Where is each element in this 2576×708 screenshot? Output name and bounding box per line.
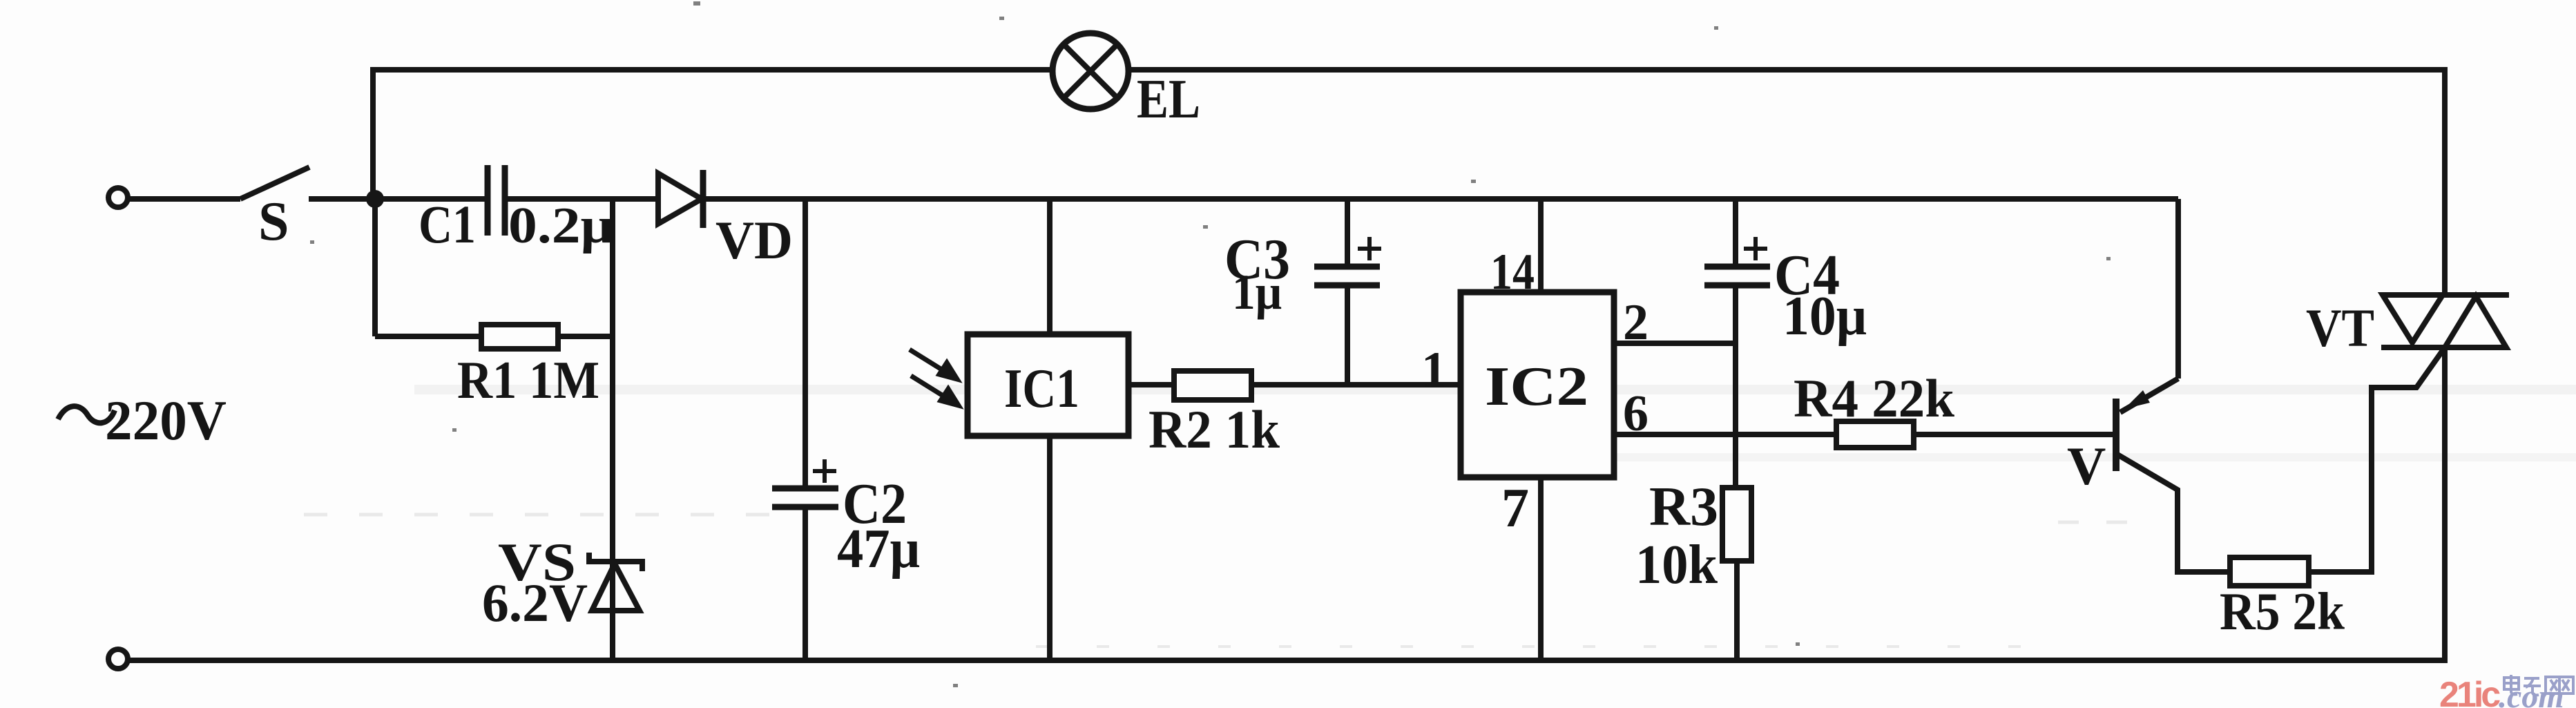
svg-text:2: 2 <box>1623 294 1649 351</box>
svg-text:10μ: 10μ <box>1782 286 1867 347</box>
svg-text:R1 1M: R1 1M <box>457 350 599 410</box>
svg-text:R4 22k: R4 22k <box>1794 368 1955 428</box>
svg-text:1: 1 <box>1421 342 1447 399</box>
svg-text:IC2: IC2 <box>1485 356 1588 417</box>
svg-text:R2 1k: R2 1k <box>1148 399 1280 459</box>
svg-text:C1: C1 <box>419 194 476 254</box>
svg-text:.com: .com <box>2499 678 2564 708</box>
svg-text:220V: 220V <box>105 389 227 452</box>
svg-text:47μ: 47μ <box>837 519 920 580</box>
svg-text:S: S <box>258 191 289 252</box>
svg-text:EL: EL <box>1137 69 1200 130</box>
svg-text:6.2V: 6.2V <box>482 573 588 633</box>
svg-text:10k: 10k <box>1635 535 1718 595</box>
svg-text:V: V <box>2067 436 2106 496</box>
svg-text:VD: VD <box>715 210 793 270</box>
svg-text:0.2μ: 0.2μ <box>508 198 613 254</box>
svg-text:VT: VT <box>2306 298 2374 358</box>
svg-text:14: 14 <box>1490 244 1535 300</box>
svg-text:1μ: 1μ <box>1232 265 1282 320</box>
svg-text:7: 7 <box>1501 478 1529 539</box>
svg-text:21ic: 21ic <box>2439 675 2500 708</box>
svg-text:R5 2k: R5 2k <box>2220 582 2345 641</box>
svg-text:IC1: IC1 <box>1004 358 1079 419</box>
svg-text:R3: R3 <box>1649 477 1718 537</box>
svg-text:6: 6 <box>1623 385 1649 442</box>
